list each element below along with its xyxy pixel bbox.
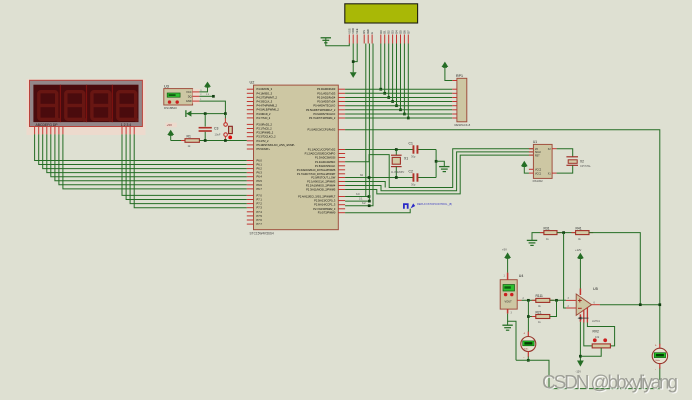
svg-text:P6.5: P6.5 — [257, 179, 263, 183]
svg-text:SCLK: SCLK — [535, 152, 541, 154]
svg-text:D3: D3 — [391, 30, 395, 34]
svg-text:D0: D0 — [379, 30, 383, 34]
svg-text:CRYSTAL: CRYSTAL — [580, 165, 591, 168]
svg-text:P0.3/AD3/TxD4: P0.3/AD3/TxD4 — [317, 100, 336, 104]
wire: LCD RS/RW/E to U2 (net stubs P3.0-P3.2) — [345, 44, 373, 208]
svg-text:R111: R111 — [536, 294, 544, 298]
svg-text:P1.4/ADC4/MISO: P1.4/ADC4/MISO — [315, 160, 335, 164]
svg-text:P4.0/MOSI_3: P4.0/MOSI_3 — [257, 87, 273, 91]
resistor R21 1k — [528, 300, 556, 324]
ground (earth) crystal circuit — [439, 167, 449, 172]
wire: U4 VOUT node — [522, 299, 536, 302]
wire: XTAL1 row with C1 — [345, 148, 436, 151]
microcontroller U2 STC15W4K56S4 — [247, 81, 345, 236]
svg-text:10k: 10k — [595, 335, 600, 339]
svg-text:D6: D6 — [402, 30, 406, 34]
svg-text:P6.4: P6.4 — [257, 175, 263, 179]
wire: 7-seg segment bus A-G,DP to U2 — [35, 134, 247, 189]
op-amp U5 LM741 — [566, 287, 600, 323]
svg-text:X1: X1 — [404, 157, 408, 161]
svg-text:P7.0: P7.0 — [257, 193, 263, 197]
svg-text:X2: X2 — [580, 159, 584, 163]
svg-text:P4.7/TxD_2: P4.7/TxD_2 — [257, 116, 271, 120]
svg-text:P2.6/A14/CCP1_3: P2.6/A14/CCP1_3 — [314, 203, 336, 207]
svg-text:P2.7/A15/PWM2_3: P2.7/A15/PWM2_3 — [313, 207, 336, 211]
svg-text:P7.6: P7.6 — [257, 218, 263, 222]
svg-text:P1.0/ADC0/CCP1/RxD2: P1.0/ADC0/CCP1/RxD2 — [307, 128, 335, 132]
wire: R31-R41 node — [557, 231, 576, 234]
svg-text:U1: U1 — [533, 140, 537, 144]
wire: 7-seg digit select bus 1-4 to U2 — [122, 134, 247, 207]
svg-text:+: + — [655, 344, 657, 348]
svg-text:P7.3: P7.3 — [257, 206, 263, 210]
power +12V arrow (op-amp V+) — [575, 248, 584, 288]
ground (earth) at R31 — [527, 233, 544, 246]
svg-text:R41: R41 — [576, 227, 582, 231]
svg-text:P1.0/T2/PWM0: P1.0/T2/PWM0 — [318, 211, 336, 215]
svg-text:P6.0: P6.0 — [257, 159, 263, 163]
svg-text:3.1: 3.1 — [359, 198, 363, 201]
wire: op-amp output row — [600, 303, 661, 306]
svg-text:P1.3/ADC3/MOSI: P1.3/ADC3/MOSI — [315, 156, 336, 160]
svg-text:VCC1: VCC1 — [535, 173, 542, 175]
svg-text:Volts: Volts — [524, 347, 529, 350]
resistor R1 — [171, 135, 247, 148]
svg-text:P4.4/T4/PWM8_2: P4.4/T4/PWM8_2 — [257, 104, 278, 108]
svg-text:D5: D5 — [399, 30, 403, 34]
svg-text:U2: U2 — [250, 81, 255, 85]
svg-text:P7.7: P7.7 — [257, 222, 263, 226]
svg-text:P2.4/A12/ECI_3/SS_2/PWMFLT: P2.4/A12/ECI_3/SS_2/PWMFLT — [298, 195, 336, 199]
svg-text:U4: U4 — [519, 274, 524, 278]
svg-text:RESPACK-8: RESPACK-8 — [455, 123, 471, 127]
svg-text:3.0: 3.0 — [356, 193, 360, 196]
svg-text:P6.7: P6.7 — [257, 187, 263, 191]
svg-text:E: E — [370, 32, 374, 34]
svg-text:P6.6: P6.6 — [257, 183, 263, 187]
capacitor C2 30p — [409, 169, 419, 186]
svg-text:+: + — [523, 332, 525, 336]
svg-text:30p: 30p — [411, 182, 416, 186]
ground terminal (left arrow) at DS18B20 node — [186, 110, 192, 117]
wire: U2 to DS1302 SCLK route — [345, 152, 533, 191]
svg-text:VOUT: VOUT — [505, 299, 513, 303]
wire: XTAL2 row with C2 — [345, 174, 436, 179]
svg-text:DQ: DQ — [188, 94, 192, 98]
svg-text:P2.2/A10/MISO_2/PWM4: P2.2/A10/MISO_2/PWM4 — [306, 184, 336, 188]
svg-text:+5V: +5V — [167, 123, 172, 127]
svg-text:P0.7/AD7/T4/PWM4_2: P0.7/AD7/T4/PWM4_2 — [309, 116, 336, 120]
svg-text:P0.2/AD2/RxD4: P0.2/AD2/RxD4 — [317, 96, 336, 100]
svg-text:DS18B20: DS18B20 — [164, 106, 177, 110]
wire: U2 to DS1302 RST route — [345, 155, 533, 194]
svg-text:RS: RS — [362, 30, 366, 34]
svg-text:P5.4/RST/MCLKO_2/SS_3/CMP-: P5.4/RST/MCLKO_2/SS_3/CMP- — [257, 143, 296, 147]
svg-text:P3.0/RxD2_2: P3.0/RxD2_2 — [257, 122, 273, 126]
svg-text:P0.0/AD0/RxD3: P0.0/AD0/RxD3 — [317, 87, 336, 91]
power +5V arrow (U4) — [502, 248, 511, 273]
temperature sensor U4 LM35 — [500, 273, 524, 315]
power -12V arrow — [576, 361, 584, 374]
wire: U3 DQ stub with junction dot — [199, 94, 214, 98]
svg-text:P4.5/ALE/PWM6_2: P4.5/ALE/PWM6_2 — [257, 108, 280, 112]
svg-text:GND: GND — [186, 99, 192, 103]
wire: U2 P1.0/ADC to op-amp output (long net) — [345, 130, 660, 345]
svg-text:3.2: 3.2 — [362, 202, 366, 205]
svg-text:Volts: Volts — [655, 359, 660, 362]
wire: U3 GND down to pull-up node — [199, 101, 225, 114]
svg-text:P2.3/A11/MOSI_2/PWM5: P2.3/A11/MOSI_2/PWM5 — [306, 188, 336, 192]
svg-text:VCC: VCC — [186, 90, 192, 94]
svg-text:D4: D4 — [395, 30, 399, 34]
svg-text:1 2 3 4: 1 2 3 4 — [121, 123, 131, 127]
RTC U1 DS1302 — [529, 140, 557, 183]
svg-text:P0.1/AD1/TxD3: P0.1/AD1/TxD3 — [317, 91, 336, 95]
svg-text:C3: C3 — [214, 126, 218, 130]
wire: LCD VDD/VEE to down-arrow terminal — [350, 44, 357, 78]
svg-text:P5.5/CMP+: P5.5/CMP+ — [257, 147, 271, 151]
svg-text:11.0592MHz: 11.0592MHz — [391, 171, 405, 174]
potentiometer RV2 — [580, 323, 614, 357]
svg-text:CSDN @bbxyliyang: CSDN @bbxyliyang — [542, 373, 678, 394]
svg-text:P4.6/RxD_2: P4.6/RxD_2 — [257, 112, 272, 116]
svg-text:P7.5: P7.5 — [257, 214, 263, 218]
svg-text:P3.3/T2CLKO_2: P3.3/T2CLKO_2 — [257, 135, 277, 139]
svg-text:D7: D7 — [406, 30, 410, 34]
svg-text:P0.4/AD4/T3CLKO: P0.4/AD4/T3CLKO — [313, 104, 335, 108]
svg-text:P1.5/ADC5/SCLK: P1.5/ADC5/SCLK — [315, 164, 336, 168]
power arrow U1 VCC1 — [521, 161, 529, 173]
svg-text:R21: R21 — [536, 310, 542, 314]
svg-text:RW: RW — [366, 29, 370, 34]
svg-text:P4.2/T3/PWM7_2: P4.2/T3/PWM7_2 — [257, 95, 278, 99]
wire: crystal right vertical to ground — [435, 150, 445, 178]
wire: meter rail bottom — [516, 357, 660, 389]
svg-text:U5: U5 — [593, 287, 598, 291]
push button switch at DS18B20 node — [224, 112, 233, 140]
svg-text:D1: D1 — [383, 30, 387, 34]
svg-text:P0.5/AD5/T3/PWMFLT_2: P0.5/AD5/T3/PWMFLT_2 — [306, 108, 336, 112]
wire: R111 right to op-amp + input — [550, 299, 566, 302]
LCD display LCD1 (green) — [345, 4, 418, 44]
svg-text:P6.1: P6.1 — [257, 163, 263, 167]
wire: VOUT node down to R21 and meter — [527, 300, 530, 332]
svg-text:R1: R1 — [187, 135, 191, 139]
svg-text:30p: 30p — [411, 154, 416, 158]
svg-text:P0.6/AD6/T4CLKO: P0.6/AD6/T4CLKO — [313, 112, 335, 116]
wire: R41 to op-amp output (feedback) — [589, 233, 640, 305]
svg-text:+5V: +5V — [502, 248, 507, 252]
svg-text:C1: C1 — [409, 142, 413, 146]
wire: op-amp V- to -12V — [579, 322, 582, 361]
temperature sensor U3 DS18B20 — [164, 84, 203, 110]
svg-text:VSS: VSS — [347, 28, 351, 34]
svg-text:P7.1: P7.1 — [257, 198, 263, 202]
svg-text:P1.6/ADC6/RxD_3/XTAL2/PWM6: P1.6/ADC6/RxD_3/XTAL2/PWM6 — [297, 168, 336, 172]
svg-text:D2: D2 — [387, 30, 391, 34]
resistor R31 1k — [540, 227, 561, 241]
svg-text:+12V: +12V — [575, 248, 582, 252]
wire: U2 P1.x staircase segment to DS1302 I/O net — [345, 182, 385, 188]
svg-text:10uF: 10uF — [215, 132, 221, 136]
svg-text:VCC2: VCC2 — [535, 170, 542, 172]
voltmeter VM2 — [652, 344, 667, 372]
svg-text:P7.2: P7.2 — [257, 202, 263, 206]
svg-text:REPLAY/STOPCONTROL_(8): REPLAY/STOPCONTROL_(8) — [417, 202, 452, 206]
resistor R111 4k — [532, 294, 554, 308]
ground (earth) for LCD VSS — [321, 38, 350, 46]
svg-text:DS1302: DS1302 — [533, 179, 544, 183]
voltmeter VM1 — [521, 332, 536, 359]
svg-text:STC15W4K56S4: STC15W4K56S4 — [250, 232, 274, 236]
svg-text:P2.5/A13/CCP0_3: P2.5/A13/CCP0_3 — [314, 199, 336, 203]
ground (earth) U4 — [502, 324, 512, 326]
wire: U2 to DS1302 I/O route — [345, 149, 533, 188]
crystal X2 CRYSTAL — [557, 149, 592, 173]
svg-text:VEE: VEE — [355, 28, 359, 34]
wire: node row DS18B20 / C3 top — [191, 112, 226, 115]
svg-text:P3.2/PWM5_2: P3.2/PWM5_2 — [257, 131, 274, 135]
power +5V arrow (U3 VCC) — [199, 82, 211, 92]
wire: LCD data D0-D7 down to P0 bus (junctions) — [379, 44, 409, 120]
debug probe marker (blue) — [403, 202, 452, 209]
svg-text:P2.0/RSTOUT_LOW: P2.0/RSTOUT_LOW — [311, 176, 336, 180]
svg-text:R31: R31 — [544, 227, 550, 231]
svg-text:P4.3/SCLK_3: P4.3/SCLK_3 — [257, 100, 273, 104]
wire: P0 bus U2 to RP1 — [345, 89, 452, 118]
power arrow for RP1 common — [442, 62, 453, 81]
power +5V label and arrow (R1) — [165, 123, 176, 141]
7-segment display DISP1 — [27, 79, 146, 135]
svg-text:P7.4: P7.4 — [257, 210, 263, 214]
resistor R41 4k — [571, 227, 593, 241]
crystal X1 11.0592MHz — [391, 150, 408, 178]
svg-text:RV2: RV2 — [593, 329, 600, 333]
svg-text:U3: U3 — [164, 84, 169, 88]
svg-text:P3.1/TxD2_2: P3.1/TxD2_2 — [257, 127, 273, 131]
svg-text:C2: C2 — [409, 169, 413, 173]
svg-text:ABCDEFG DP: ABCDEFG DP — [36, 123, 59, 127]
svg-text:P6.2: P6.2 — [257, 167, 263, 171]
svg-text:RP1: RP1 — [456, 74, 463, 78]
svg-text:P1.2/ADC2/SS/ECI/CMPO: P1.2/ADC2/SS/ECI/CMPO — [305, 152, 336, 156]
svg-text:P2.1/A9/SCLK_2/PWM3: P2.1/A9/SCLK_2/PWM3 — [307, 180, 336, 184]
capacitor C3 — [199, 114, 221, 141]
resistor pack RP1 RESPACK-8 — [452, 74, 470, 127]
watermark text — [542, 373, 679, 395]
wire: R31/R41 node to inverting input — [564, 233, 566, 308]
svg-text:P4.1/MISO_3: P4.1/MISO_3 — [257, 91, 273, 95]
wire: U2 P3.7 to debug probe — [345, 209, 410, 213]
svg-text:RST: RST — [535, 155, 540, 157]
svg-text:P3.4/T2_2: P3.4/T2_2 — [257, 139, 270, 143]
svg-text:P6.3: P6.3 — [257, 171, 263, 175]
svg-text:P1.1/ADC1/CCP0/TxD2: P1.1/ADC1/CCP0/TxD2 — [308, 148, 336, 152]
svg-text:VDD: VDD — [351, 28, 355, 34]
svg-text:LM741: LM741 — [592, 319, 600, 323]
svg-text:P1.7/ADC7/TxD_3/XTAL1/PWM7: P1.7/ADC7/TxD_3/XTAL1/PWM7 — [297, 172, 336, 176]
svg-text:I/O: I/O — [535, 149, 538, 151]
capacitor C1 30p — [409, 142, 419, 159]
wire: U4 pin3 to ground and meter rail — [508, 314, 516, 361]
